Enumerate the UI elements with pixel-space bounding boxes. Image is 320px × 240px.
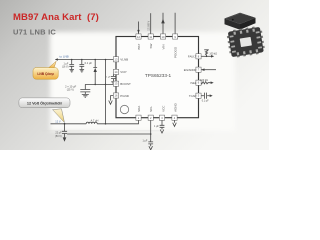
svg-text:1 µF: 1 µF: [106, 77, 111, 79]
wire VCC pin3 down: [161, 120, 163, 125]
callout 12 Volt: [19, 98, 70, 108]
capacitor C1 1uF: [69, 60, 74, 70]
inductor L1 4.7uH: [86, 122, 97, 124]
svg-text:BST: BST: [137, 43, 141, 49]
svg-text:12.568 V: 12.568 V: [147, 20, 150, 30]
svg-text:MB97 Ana Kart (7): MB97 Ana Kart (7): [13, 12, 99, 23]
svg-text:VIN: VIN: [161, 44, 165, 49]
svg-text:U71 LNB IC: U71 LNB IC: [13, 28, 56, 37]
capacitor C8 TCAP: [205, 93, 207, 99]
node VLNB diode: [94, 59, 96, 61]
wire FAULT: [201, 55, 211, 57]
capacitor C5 22uF: [62, 124, 67, 138]
pin 4 box: [172, 115, 177, 120]
wire SCL pin2 down: [150, 120, 152, 141]
ground C7 arrow: [160, 130, 164, 134]
arrow FAULT out: [211, 55, 214, 58]
node diode boost: [94, 84, 96, 86]
svg-text:(50 V): (50 V): [55, 135, 62, 138]
svg-text:PGND: PGND: [120, 94, 130, 98]
wire EN/ADDR: [201, 69, 216, 71]
ground PGND arrow: [109, 101, 113, 105]
pin 5 box: [196, 93, 201, 98]
slide background: [0, 0, 269, 150]
capacitor C2 0.1uF: [79, 60, 84, 70]
zener diode D1: [93, 60, 97, 85]
svg-text:VLNB: VLNB: [120, 58, 128, 62]
pin 12 box: [136, 34, 141, 39]
arrow to LNB: [55, 58, 58, 60]
chip photo QFN bottom view: [226, 25, 266, 58]
pin boxes: [113, 34, 201, 120]
ground C6 arrow: [149, 146, 153, 150]
wire pin12 BST up: [138, 22, 140, 34]
svg-text:VCP: VCP: [120, 70, 126, 74]
svg-text:SW: SW: [149, 43, 153, 48]
svg-text:FAULT: FAULT: [188, 54, 197, 58]
wire pin9 PGOOD up: [174, 13, 176, 34]
svg-text:TCAP: TCAP: [189, 94, 197, 98]
node rail boost: [105, 84, 107, 86]
ground AGND arrow: [173, 123, 177, 127]
wire 12V bottom bus: [51, 123, 87, 125]
svg-text:0.1 µF: 0.1 µF: [202, 99, 209, 102]
node rail bottom: [105, 123, 107, 125]
chip photo 3D package: [225, 13, 256, 30]
svg-text:ISEL: ISEL: [190, 81, 197, 85]
wire pin11 SW up: [150, 13, 152, 34]
svg-text:to LNB: to LNB: [60, 55, 69, 59]
wire AGND pin4: [174, 120, 176, 122]
ground C4: [82, 94, 89, 97]
node SCL bus: [150, 133, 152, 135]
svg-text:100 kΩ: 100 kΩ: [209, 53, 217, 56]
wire L1 to pin1: [97, 120, 138, 124]
svg-text:VCC: VCC: [161, 105, 165, 112]
svg-text:12 Volt Ölçülmelidir: 12 Volt Ölçülmelidir: [27, 101, 63, 106]
IC U71 TPS65233-1 body: [116, 37, 199, 118]
svg-text:100 kΩ: 100 kΩ: [200, 79, 208, 82]
svg-text:PGOOD: PGOOD: [173, 46, 177, 58]
svg-text:SCL: SCL: [149, 106, 153, 112]
svg-text:(16 V): (16 V): [62, 65, 69, 68]
resistor R1 100k pullup: [205, 50, 207, 57]
svg-text:BOOST: BOOST: [120, 82, 131, 86]
ground C3: [111, 82, 116, 84]
capacitor C6 1uF: [148, 142, 153, 146]
wire pin10 VIN up: [162, 13, 164, 34]
rail wire vertical: [105, 60, 107, 124]
svg-text:12 V: 12 V: [55, 120, 61, 124]
pin 6 box: [196, 80, 201, 85]
ground C2: [80, 70, 85, 72]
supply arrow VIN: [161, 19, 165, 24]
pin 13 box: [113, 57, 118, 62]
pin 2 box: [148, 115, 153, 120]
node VLNB capB: [81, 59, 83, 61]
pin 3 box: [159, 115, 164, 120]
arrow into BST: [137, 30, 139, 34]
svg-text:SDA: SDA: [137, 106, 141, 112]
thermal pad circle: [120, 105, 128, 113]
pin 7 box: [196, 67, 201, 72]
pin 8 box: [196, 54, 201, 59]
pin 14 box: [113, 69, 118, 74]
arrow TCAP out: [210, 94, 213, 97]
pin 9 box: [173, 34, 178, 39]
wire VCP: [113, 72, 115, 76]
svg-text:1 µF: 1 µF: [142, 139, 147, 142]
svg-text:TPS65233-1: TPS65233-1: [145, 73, 172, 78]
arrow EN in: [201, 68, 204, 71]
supply rail 3V3: [204, 49, 209, 51]
capacitor C3 1uF VCP: [111, 76, 116, 81]
wire bus to pin2: [67, 133, 151, 135]
ground C1: [69, 70, 74, 72]
node 12V: [64, 123, 66, 125]
svg-text:AGND: AGND: [173, 102, 177, 112]
node VLNB rail: [105, 59, 107, 61]
pin 10 box: [160, 34, 165, 39]
figure white area: [50, 32, 235, 131]
resistor R2 100k: [200, 82, 211, 84]
svg-text:4.7 µH: 4.7 µH: [91, 119, 99, 123]
svg-text:1 µF: 1 µF: [154, 125, 159, 128]
callout tail LNB: [48, 61, 56, 68]
pin 1 box: [136, 115, 141, 120]
svg-text:(25 V): (25 V): [67, 88, 74, 92]
pin 15 box: [113, 81, 118, 86]
callout LNB Cikisi: [33, 68, 58, 80]
ground C5 arrow: [63, 137, 67, 141]
wire TCAP out: [207, 95, 210, 97]
arrow R2 out: [211, 81, 214, 84]
node VLNB capA: [71, 59, 73, 61]
svg-text:0.1 µF: 0.1 µF: [85, 61, 93, 65]
capacitor C4 2x10uF: [80, 84, 90, 94]
wire BOOST: [85, 83, 116, 85]
wire PGND: [111, 96, 117, 101]
svg-text:EN/ADDR: EN/ADDR: [184, 68, 197, 72]
wire TCAP: [201, 95, 204, 97]
svg-text:LNB Çıkışı: LNB Çıkışı: [37, 72, 54, 76]
callout tail 12V: [53, 109, 65, 123]
capacitor C7 1uF VCC: [160, 125, 165, 129]
wire VLNB to LNB: [56, 59, 117, 61]
pin 11 box: [148, 34, 153, 39]
pin 16 box: [113, 93, 118, 98]
node FAULT: [206, 56, 208, 58]
